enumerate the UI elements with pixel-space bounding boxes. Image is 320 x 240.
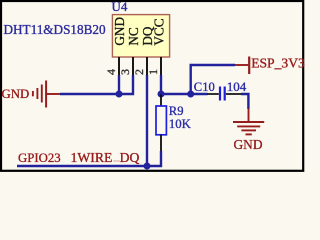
svg-text:R9: R9 (169, 104, 184, 118)
power port GND right: stem (248, 109, 250, 123)
svg-text:2: 2 (132, 69, 146, 75)
pin 3 (132, 57, 134, 76)
svg-text:GPIO23: GPIO23 (18, 151, 61, 165)
wire cap right to GND drop (241, 94, 248, 109)
svg-text:DHT11&DS18B20: DHT11&DS18B20 (4, 22, 106, 37)
svg-text:GND: GND (2, 87, 30, 101)
wire pin4 drop (118, 75, 120, 94)
wire DQ bottom rail (17, 151, 161, 166)
sheet background (0, 0, 305, 172)
wire ESP_3V3 branch (191, 65, 235, 94)
wire GND rail to pins 4,3 (60, 75, 133, 94)
wire DQ vertical (146, 75, 148, 166)
sheet border (1, 1, 303, 171)
pin 1 (160, 57, 162, 76)
resistor R9 top lead (160, 95, 162, 107)
resistor R9 body (156, 106, 166, 135)
junction DQ/bottom rail (144, 163, 151, 170)
capacitor C10 left lead (207, 93, 219, 95)
capacitor C10 plates (219, 87, 221, 101)
resistor R9 bottom lead (160, 135, 162, 152)
svg-text:GND: GND (112, 17, 127, 46)
pin 4 (118, 57, 120, 76)
svg-text:1: 1 (146, 69, 160, 75)
svg-text:1WIRE: 1WIRE (71, 150, 113, 165)
wire pin1 drop (160, 75, 162, 94)
svg-text:VCC: VCC (151, 18, 166, 45)
svg-text:NC: NC (126, 27, 141, 46)
power port GND right: bars (233, 121, 264, 123)
svg-text:ESP_3V3: ESP_3V3 (251, 56, 305, 71)
svg-text:DQ: DQ (120, 150, 140, 165)
svg-text:10K: 10K (169, 117, 192, 131)
component body U4 (112, 15, 169, 57)
pin 2 (146, 57, 148, 76)
power port ESP_3V3: bar (248, 57, 250, 75)
svg-text:C10: C10 (194, 80, 215, 94)
svg-text:U4: U4 (112, 0, 128, 14)
svg-text:104: 104 (227, 79, 247, 94)
svg-text:3: 3 (118, 69, 132, 75)
svg-text:4: 4 (104, 69, 118, 75)
power port GND left: stem (47, 93, 61, 95)
junction pin4/GND (116, 91, 123, 98)
svg-text:GND: GND (234, 137, 263, 152)
wire 3V3 rail (161, 93, 208, 95)
capacitor C10 right lead (226, 93, 241, 95)
power port GND left: bars (45, 81, 47, 108)
power port ESP_3V3: lead (235, 64, 248, 66)
junction rail/ESP branch (187, 91, 194, 98)
junction pin1/R9/rail (158, 91, 165, 98)
